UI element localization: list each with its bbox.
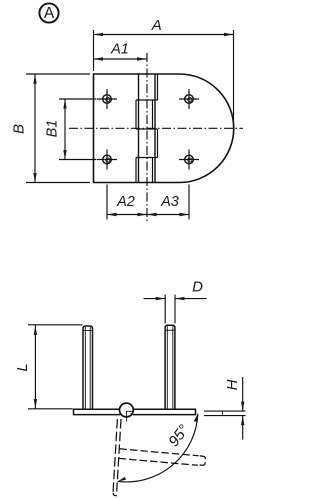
- dimension L: [14, 325, 82, 409]
- hole top-left: [97, 89, 117, 109]
- svg-text:L: L: [14, 363, 31, 371]
- knuckle joint left edge line: [138, 74, 140, 183]
- left stud (side view): [83, 326, 93, 409]
- svg-text:A1: A1: [110, 42, 129, 58]
- dimension B: [10, 74, 90, 183]
- pin centerline (vertical dash-dot): [146, 53, 148, 222]
- dimension B1: [44, 99, 96, 160]
- hole bottom-right: [179, 150, 199, 170]
- view label circle A: [39, 3, 58, 22]
- svg-text:H: H: [224, 379, 241, 390]
- hole top-right: [179, 89, 199, 109]
- dimension H: [204, 377, 246, 440]
- dimension D: [144, 279, 207, 324]
- svg-text:D: D: [192, 279, 203, 296]
- hinge leaf (side view, horizontal): [74, 409, 196, 414]
- dimension A1: [94, 42, 147, 61]
- horizontal centerline (dash-dot): [69, 127, 243, 129]
- svg-text:A3: A3: [160, 194, 179, 210]
- dimension A: [94, 17, 234, 129]
- svg-text:A: A: [44, 5, 55, 22]
- knuckle segment lines (alternating): [136, 74, 158, 183]
- hinge plate outline (top view): [94, 74, 234, 183]
- svg-text:B: B: [10, 124, 27, 134]
- svg-text:A: A: [151, 17, 162, 34]
- dimension A2: [107, 185, 147, 220]
- knuckle division lines: [136, 100, 158, 158]
- right stud (side view): [165, 325, 175, 409]
- swung leaf (dashed, open position): [113, 419, 121, 496]
- hole bottom-left: [97, 150, 117, 170]
- dimension A3: [147, 185, 189, 220]
- svg-text:B1: B1: [44, 120, 60, 138]
- swung stud (dashed, open position): [119, 449, 206, 466]
- knuckle joint right edge line: [154, 74, 156, 183]
- hinge pin circle: [120, 403, 134, 421]
- svg-text:A2: A2: [116, 194, 135, 210]
- 95 degree dimension arc: [118, 414, 198, 482]
